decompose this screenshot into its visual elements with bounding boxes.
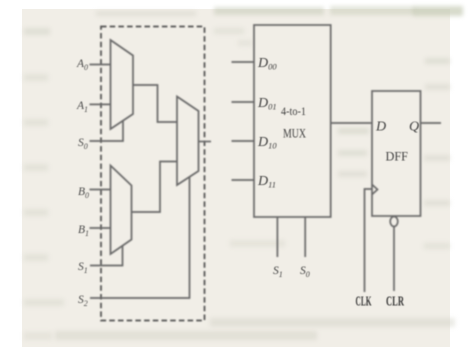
wire B1 (90, 227, 111, 229)
wire S0 select into U1 (90, 121, 124, 141)
wire S1 select into U2 (90, 246, 123, 266)
mux trapezoid U1 (A inputs) (111, 40, 134, 129)
4-to-1 MUX box (254, 25, 331, 217)
svg-text:MUX: MUX (283, 127, 306, 141)
wire D00 stub (232, 61, 255, 63)
wire U3 output stub (199, 141, 212, 143)
wire U1 output to U3 upper input (133, 85, 177, 122)
wire Q output stub (421, 122, 442, 124)
wire A1 (90, 103, 111, 105)
svg-text:Q: Q (409, 120, 419, 135)
DFF box U4 (372, 91, 421, 216)
wire D01 stub (232, 101, 255, 103)
wire CLR (393, 227, 395, 292)
svg-text:DFF: DFF (386, 149, 409, 164)
wire D10 stub (232, 140, 255, 142)
wire U2 output to U3 lower input (132, 162, 178, 213)
wire MUX output to DFF D (331, 122, 372, 124)
wire MUX select S0 (304, 217, 306, 257)
CLR bubble (390, 217, 398, 227)
svg-text:D: D (375, 120, 386, 135)
svg-text:4-to-1: 4-to-1 (281, 104, 306, 118)
dashed enclosure box (101, 27, 205, 321)
wire MUX select S1 (276, 217, 278, 257)
svg-text:CLR: CLR (386, 294, 404, 309)
wire CLK (365, 189, 373, 292)
wire D11 stub (232, 179, 255, 181)
wire B0 (90, 189, 111, 191)
clock chevron (372, 185, 378, 195)
mux trapezoid U3 (second stage) (177, 97, 199, 186)
wire S2 select into U3 (90, 177, 190, 298)
mux trapezoid U2 (B inputs) (111, 166, 132, 255)
wire A0 (90, 64, 111, 66)
svg-text:CLK: CLK (356, 294, 372, 309)
